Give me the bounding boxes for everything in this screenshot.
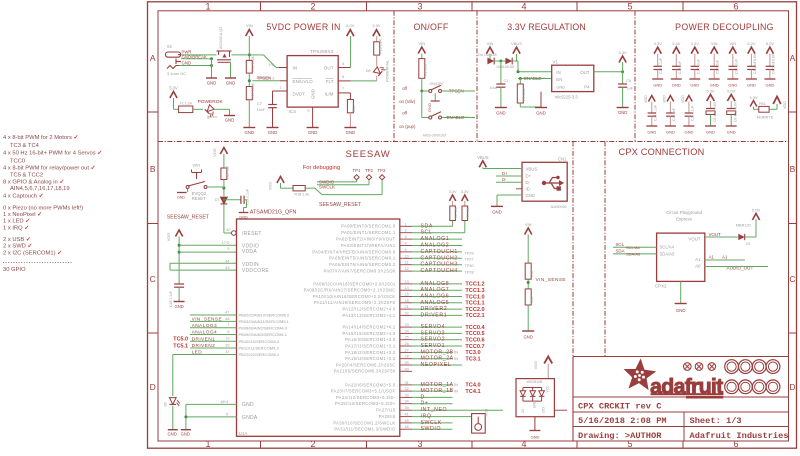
svg-text:C: C: [789, 274, 795, 284]
svg-text:TP3: TP3: [378, 168, 386, 173]
svg-text:PB11/I11/SERCOM4.3: PB11/I11/SERCOM4.3: [239, 346, 280, 351]
svg-text:MBR120: MBR120: [736, 224, 751, 228]
svg-text:Sheet: 1/3: Sheet: 1/3: [690, 416, 742, 426]
svg-text:CAPTOUCH1: CAPTOUCH1: [421, 249, 458, 255]
svg-text:GND: GND: [242, 402, 254, 408]
svg-text:R6 100K: R6 100K: [522, 87, 526, 101]
svg-text:R16 100K: R16 100K: [251, 82, 255, 99]
svg-text:MOTOR_1A: MOTOR_1A: [421, 382, 454, 388]
svg-text:VDDA: VDDA: [242, 249, 257, 255]
svg-text:TCC2.0: TCC2.0: [465, 307, 484, 313]
svg-text:POWERFAIL: POWERFAIL: [386, 60, 390, 82]
svg-text:43: 43: [225, 266, 229, 270]
svg-text:mic5225-3.3: mic5225-3.3: [555, 95, 579, 100]
svg-text:1 x IRQ ✓: 1 x IRQ ✓: [3, 225, 29, 231]
svg-text:SWDIO: SWDIO: [319, 179, 335, 184]
svg-text:RESET: RESET: [192, 196, 206, 201]
svg-text:CAPTOUCH2: CAPTOUCH2: [421, 255, 458, 261]
svg-text:3.3V: 3.3V: [372, 23, 381, 28]
svg-text:PA30/I10/SECOM1.2/SWCLK: PA30/I10/SECOM1.2/SWCLK: [333, 420, 395, 425]
svg-text:R10 100K: R10 100K: [251, 55, 255, 72]
svg-text:TC5.1: TC5.1: [173, 343, 188, 349]
svg-text:ANALOG4: ANALOG4: [192, 330, 217, 336]
svg-text:GND: GND: [533, 400, 537, 408]
svg-text:1: 1: [279, 86, 281, 90]
svg-text:GND: GND: [308, 130, 318, 135]
svg-text:D-: D-: [421, 394, 428, 400]
svg-text:40: 40: [226, 228, 230, 232]
svg-text:SEESAW: SEESAW: [345, 149, 390, 160]
svg-text:IN: IN: [454, 388, 458, 393]
svg-text:5.0V: 5.0V: [727, 89, 736, 94]
svg-text:INT_NEO: INT_NEO: [421, 407, 448, 413]
svg-text:MOTOR_1B: MOTOR_1B: [421, 388, 454, 394]
svg-text:PA18/I2/SERCOM1+3.2: PA18/I2/SERCOM1+3.2: [345, 350, 396, 355]
svg-text:TCC0.4: TCC0.4: [465, 325, 485, 331]
svg-text:21: 21: [405, 305, 409, 309]
svg-text:VIN: VIN: [711, 41, 718, 46]
svg-text:34: 34: [405, 400, 409, 404]
svg-text:on (pup): on (pup): [399, 124, 416, 129]
svg-text:SDA/A5: SDA/A5: [626, 251, 641, 256]
svg-text:3.3V: 3.3V: [691, 41, 700, 46]
svg-text:C18 0.1uF: C18 0.1uF: [169, 291, 173, 307]
svg-text:FERRITE: FERRITE: [757, 115, 774, 120]
svg-text:C12 1uF: C12 1uF: [672, 108, 676, 121]
svg-text:TP24: TP24: [485, 409, 489, 417]
svg-text:2: 2: [405, 229, 407, 233]
svg-text:6: 6: [733, 1, 738, 11]
svg-text:AO3401A Q2: AO3401A Q2: [219, 27, 223, 49]
svg-text:C21 10uF: C21 10uF: [734, 59, 738, 74]
svg-text:PA04/EINT4/VREFB/AIN4/SERCOM0.: PA04/EINT4/VREFB/AIN4/SERCOM0.0: [312, 249, 395, 254]
svg-text:IN: IN: [293, 66, 298, 71]
svg-text:9: 9: [307, 109, 309, 113]
svg-text:TCC0.6: TCC0.6: [465, 338, 484, 344]
svg-text:GND: GND: [653, 83, 662, 88]
svg-text:IN: IN: [454, 356, 458, 361]
svg-text:A: A: [150, 53, 156, 63]
svg-text:18*4: 18*4: [220, 400, 228, 404]
svg-text:30 GPIO: 30 GPIO: [3, 267, 26, 273]
svg-text:5: 5: [227, 247, 229, 251]
svg-text:A1: A1: [695, 257, 701, 262]
svg-text:32: 32: [405, 387, 409, 391]
svg-text:R18 1.2k: R18 1.2k: [295, 193, 310, 197]
svg-text:TCC1.1: TCC1.1: [465, 301, 484, 307]
svg-text:SDA/A5: SDA/A5: [660, 251, 676, 256]
svg-text:GND: GND: [728, 83, 737, 88]
svg-text:LED: LED: [192, 350, 203, 356]
svg-text:28: 28: [405, 355, 409, 359]
svg-text:C: C: [150, 274, 156, 284]
svg-text:SCL/A4: SCL/A4: [660, 245, 675, 250]
svg-text:MOTOR_2B: MOTOR_2B: [421, 349, 454, 355]
svg-text:10nF: 10nF: [257, 108, 266, 112]
svg-text:SCL: SCL: [421, 230, 433, 236]
svg-text:TP29: TP29: [465, 251, 474, 255]
svg-text:B: B: [150, 164, 156, 174]
svg-text:PA14/I14/SERCOM2+4.2: PA14/I14/SERCOM2+4.2: [342, 325, 395, 330]
svg-text:WS2812B: WS2812B: [527, 380, 543, 384]
svg-text:PA24/I12/SERCOM3+5.2/D-: PA24/I12/SERCOM3+5.2/D-: [336, 395, 396, 400]
svg-text:GND: GND: [182, 61, 192, 66]
svg-text:/RESET: /RESET: [242, 231, 262, 237]
svg-text:NEOPIXEL: NEOPIXEL: [421, 362, 452, 368]
svg-text:IN: IN: [454, 350, 458, 355]
svg-text:PA31/I11/SECOM1.3/SWDIO: PA31/I11/SECOM1.3/SWDIO: [334, 427, 395, 432]
svg-text:1N4148 D5: 1N4148 D5: [496, 65, 514, 69]
svg-text:CPX CONNECTION: CPX CONNECTION: [618, 147, 704, 157]
svg-text:OUT: OUT: [324, 66, 334, 71]
svg-text:14: 14: [405, 286, 409, 290]
svg-text:SW1: SW1: [192, 164, 200, 168]
svg-text:C7: C7: [257, 101, 263, 106]
svg-text:30: 30: [405, 367, 409, 371]
svg-text:R15 1.2K: R15 1.2K: [379, 38, 383, 54]
svg-text:SCL: SCL: [616, 242, 625, 247]
svg-text:ON/OFF: ON/OFF: [429, 82, 444, 86]
svg-text:D: D: [150, 382, 156, 392]
svg-text:SEESAW_RESET: SEESAW_RESET: [167, 215, 210, 221]
svg-text:C4 10uF/16V: C4 10uF/16V: [771, 53, 775, 74]
svg-text:VIN: VIN: [246, 23, 253, 28]
svg-text:GND: GND: [536, 111, 546, 116]
svg-text:F1 1.2A: F1 1.2A: [180, 102, 193, 106]
svg-text:GND: GND: [710, 83, 719, 88]
svg-text:10uF: 10uF: [489, 86, 498, 90]
svg-text:R1 10K: R1 10K: [424, 63, 428, 76]
svg-text:9: 9: [405, 248, 407, 252]
svg-text:TCC1.0: TCC1.0: [465, 294, 484, 300]
svg-text:PB02/I2/AIN10/SERCOM5.0: PB02/I2/AIN10/SERCOM5.0: [239, 313, 290, 318]
svg-text:27: 27: [405, 348, 409, 352]
svg-text:MOTOR_2A: MOTOR_2A: [421, 356, 454, 362]
svg-text:ANALOG8: ANALOG8: [421, 281, 450, 287]
svg-text:5.0V: 5.0V: [766, 41, 775, 46]
svg-text:GND: GND: [492, 210, 502, 215]
svg-text:3.3V: 3.3V: [654, 41, 663, 46]
svg-text:4 x 8-bit PWM for relay/power: 4 x 8-bit PWM for relay/power out ✓: [3, 165, 96, 171]
svg-text:Express: Express: [676, 217, 693, 222]
svg-text:3.3V: 3.3V: [618, 50, 627, 55]
svg-text:GND: GND: [346, 130, 356, 135]
svg-text:D-: D-: [502, 177, 507, 182]
svg-text:TC3.1: TC3.1: [465, 357, 480, 363]
svg-text:VDD: VDD: [533, 361, 538, 370]
svg-text:SWCLK: SWCLK: [421, 420, 442, 426]
svg-text:2: 2: [310, 439, 315, 449]
svg-text:SDA: SDA: [421, 223, 433, 229]
svg-text:PA12/I12/SERCOM2+4.0: PA12/I12/SERCOM2+4.0: [342, 307, 395, 312]
svg-text:C9 47uF/16V: C9 47uF/16V: [734, 101, 738, 122]
svg-text:GND: GND: [666, 130, 675, 135]
svg-text:VDD: VDD: [663, 95, 667, 103]
svg-text:GND: GND: [647, 130, 656, 135]
svg-text:ON/OFF: ON/OFF: [413, 22, 448, 32]
svg-text:1*2: 1*2: [268, 63, 274, 67]
svg-text:VDD: VDD: [644, 95, 648, 103]
svg-text:PA06/EINT6/AIN6/SERCOM0.2: PA06/EINT6/AIN6/SERCOM0.2: [329, 262, 396, 267]
svg-text:PB22/I22/SERCOM5.2: PB22/I22/SERCOM5.2: [239, 352, 280, 357]
svg-text:0 x Piezo (no more PWMs left!): 0 x Piezo (no more PWMs left!): [3, 205, 83, 211]
svg-text:20: 20: [225, 343, 229, 347]
svg-text:GND: GND: [672, 83, 681, 88]
svg-text:4 x Captouch ✓: 4 x Captouch ✓: [3, 193, 44, 199]
svg-text:green: green: [207, 115, 217, 119]
svg-text:3.1mm DC: 3.1mm DC: [167, 71, 186, 76]
svg-text:C10 0.1uF: C10 0.1uF: [659, 58, 663, 74]
svg-text:TC4.1: TC4.1: [465, 389, 480, 395]
svg-text:ANALOG7: ANALOG7: [421, 287, 450, 293]
svg-text:7: 7: [227, 323, 229, 327]
svg-text:off: off: [402, 86, 408, 91]
svg-text:22: 22: [405, 311, 409, 315]
svg-text:Adafruit Industries: Adafruit Industries: [690, 431, 789, 441]
svg-text:29: 29: [405, 361, 409, 365]
svg-text:TCC1.3: TCC1.3: [465, 288, 484, 294]
svg-text:12: 12: [405, 267, 409, 271]
svg-text:ANALOG6: ANALOG6: [421, 294, 450, 300]
svg-text:D9: D9: [164, 402, 168, 407]
svg-text:GND: GND: [765, 83, 774, 88]
svg-text:D4 1N4148: D4 1N4148: [478, 53, 496, 57]
svg-text:C6: C6: [626, 79, 631, 83]
svg-text:1: 1: [205, 439, 210, 449]
svg-text:PB10/I10/SERCOM4.2: PB10/I10/SERCOM4.2: [239, 339, 280, 344]
svg-text:PA16/I0/SERCOM1+3.0: PA16/I0/SERCOM1+3.0: [345, 337, 396, 342]
svg-text:V1: V1: [553, 60, 559, 65]
svg-text:24: 24: [405, 329, 409, 333]
svg-text:PA20/I4/SERCOM5.2/I2S5C: PA20/I4/SERCOM5.2/I2S5C: [336, 362, 396, 367]
svg-text:SWDIO: SWDIO: [421, 426, 442, 432]
svg-text:16: 16: [405, 299, 409, 303]
svg-text:PA09/I2C/RX/AIN17/SERCOM0+2.1/: PA09/I2C/RX/AIN17/SERCOM0+2.1/I2SMC: [304, 288, 396, 293]
svg-text:CN1: CN1: [558, 156, 567, 161]
svg-text:2: 2: [272, 76, 274, 80]
svg-text:VDD: VDD: [681, 95, 685, 103]
svg-text:4 x 50 Hz 16-bit+ PWM for 4 Se: 4 x 50 Hz 16-bit+ PWM for 4 Servos ✓: [3, 151, 102, 157]
svg-text:R17 1M: R17 1M: [225, 166, 229, 178]
svg-text:TC5.0: TC5.0: [173, 337, 188, 343]
svg-text:on (rdiv): on (rdiv): [399, 99, 416, 104]
svg-text:DRIVER1: DRIVER1: [421, 312, 448, 318]
svg-text:ANALOG2: ANALOG2: [421, 243, 450, 249]
svg-text:DRIVEN1: DRIVEN1: [192, 337, 216, 343]
svg-text:26: 26: [405, 342, 409, 346]
svg-text:46: 46: [405, 425, 409, 429]
svg-text:D+: D+: [502, 171, 508, 176]
svg-text:41: 41: [405, 413, 409, 417]
svg-text:D7: D7: [215, 198, 220, 202]
svg-text:P4: P4: [584, 85, 590, 90]
svg-text:MSS-3000103: MSS-3000103: [423, 134, 446, 138]
svg-text:AIN4,5,6,7,16,17,18,19: AIN4,5,6,7,16,17,18,19: [10, 186, 70, 192]
svg-text:VDDIN: VDDIN: [242, 262, 259, 268]
svg-text:1: 1: [405, 222, 407, 226]
svg-text:6: 6: [342, 75, 344, 79]
svg-text:DVDT: DVDT: [293, 91, 306, 96]
svg-text:TP28: TP28: [465, 271, 474, 275]
svg-text:8 x GPIO & Analog in ✓: 8 x GPIO & Analog in ✓: [3, 179, 64, 185]
svg-text:PA01/EINT1/SERCOM1.1: PA01/EINT1/SERCOM1.1: [341, 230, 396, 235]
svg-text:For debugging: For debugging: [303, 165, 340, 171]
svg-text:5.0V: 5.0V: [346, 23, 355, 28]
svg-text:R2 10K: R2 10K: [454, 206, 458, 218]
svg-text:SERVO2: SERVO2: [421, 337, 446, 343]
svg-text:CAPTOUCH4: CAPTOUCH4: [421, 268, 458, 274]
svg-text:15: 15: [405, 293, 409, 297]
svg-text:POWEROK: POWEROK: [198, 99, 224, 105]
svg-text:ID: ID: [526, 187, 530, 192]
svg-text:PA22/I6/SERCOM3+5.0: PA22/I6/SERCOM3+5.0: [345, 382, 396, 387]
svg-text:IRQ: IRQ: [421, 414, 432, 420]
svg-text:VBUS: VBUS: [511, 41, 522, 46]
svg-text:PA21/I5/SERCOM5.3/I2SF50: PA21/I5/SERCOM5.3/I2SF50: [334, 369, 396, 374]
svg-text:R14: R14: [352, 105, 356, 112]
svg-text:PA00/EINT0/SERCOM1.0: PA00/EINT0/SERCOM1.0: [341, 224, 396, 229]
svg-text:GND: GND: [181, 432, 190, 437]
svg-text:GND: GND: [311, 89, 316, 99]
svg-text:VIN: VIN: [525, 222, 532, 227]
svg-text:VOUT: VOUT: [709, 232, 722, 237]
svg-text:SERVO1: SERVO1: [421, 343, 446, 349]
svg-text:A1: A1: [709, 255, 715, 260]
svg-text:PA15/I15/SERCOM2+4.3: PA15/I15/SERCOM2+4.3: [342, 331, 395, 336]
svg-text:FLT: FLT: [326, 79, 334, 84]
svg-text:TC4.0: TC4.0: [465, 383, 480, 389]
svg-text:GND: GND: [496, 111, 506, 116]
svg-text:25: 25: [405, 336, 409, 340]
svg-text:45: 45: [405, 419, 409, 423]
svg-text:19: 19: [225, 337, 229, 341]
svg-text:31: 31: [405, 381, 409, 385]
svg-text:5.0V: 5.0V: [747, 41, 756, 46]
svg-text:PA17/I1/SERCOM1+3.1: PA17/I1/SERCOM1+3.1: [345, 343, 396, 348]
svg-text:GND: GND: [676, 308, 686, 313]
svg-text:PA05/EINT5/AIN5/SERCOM0.1: PA05/EINT5/AIN5/SERCOM0.1: [329, 256, 396, 261]
svg-text:ANALOG1: ANALOG1: [421, 236, 450, 242]
svg-text:44: 44: [225, 260, 229, 264]
svg-text:PB08/I8/AIN2/SERCOM4.0: PB08/I8/AIN2/SERCOM4.0: [239, 325, 288, 330]
svg-text:33: 33: [405, 393, 409, 397]
svg-text:GND: GND: [168, 432, 177, 437]
svg-text:GND: GND: [747, 83, 756, 88]
svg-text:Drawing: >AUTHOR: Drawing: >AUTHOR: [578, 431, 662, 441]
svg-text:47: 47: [225, 310, 229, 314]
svg-text:FB1: FB1: [759, 102, 766, 106]
svg-text:GND: GND: [207, 81, 217, 86]
svg-text:A: A: [790, 53, 796, 63]
svg-text:2 x USB ✓: 2 x USB ✓: [3, 237, 31, 243]
svg-text:TP27: TP27: [465, 258, 474, 262]
svg-text:GND: GND: [530, 435, 539, 440]
svg-text:5: 5: [627, 1, 632, 11]
svg-text:GND: GND: [226, 81, 236, 86]
svg-text:EN: EN: [556, 77, 562, 82]
svg-text:TC3.0: TC3.0: [465, 350, 480, 356]
svg-text:1: 1: [205, 1, 210, 11]
svg-text:C1: C1: [504, 79, 509, 83]
svg-text:2: 2: [310, 1, 315, 11]
svg-text:3.3V: 3.3V: [672, 41, 681, 46]
svg-text:GND: GND: [727, 130, 736, 135]
svg-text:R12: R12: [530, 271, 534, 277]
svg-text:4: 4: [405, 242, 407, 246]
svg-text:DI: DI: [521, 409, 525, 413]
svg-text:5VDC POWER IN: 5VDC POWER IN: [266, 22, 340, 32]
svg-text:X2: X2: [167, 44, 173, 49]
svg-text:5.0V: 5.0V: [169, 85, 178, 90]
svg-text:VIN: VIN: [487, 41, 494, 46]
svg-text:VIN_SENSE: VIN_SENSE: [192, 317, 223, 323]
svg-text:PA11/I11/AIN19/SERCOM0+2.3/I2S: PA11/I11/AIN19/SERCOM0+2.3/I2SFS: [314, 300, 396, 305]
svg-text:EN/UVLO: EN/UVLO: [293, 79, 314, 84]
svg-text:ILIM: ILIM: [325, 91, 334, 96]
svg-text:VIN: VIN: [418, 41, 425, 46]
svg-text:SWCLK: SWCLK: [319, 185, 335, 190]
svg-text:A0: A0: [695, 264, 701, 269]
svg-text:D-: D-: [526, 180, 531, 185]
svg-text:2 x SWD ✓: 2 x SWD ✓: [3, 244, 32, 250]
svg-text:D+: D+: [421, 401, 429, 407]
svg-text:23: 23: [405, 323, 409, 327]
svg-text:PA02/EINT2/AIN0/Y0/VOUT: PA02/EINT2/AIN0/Y0/VOUT: [336, 237, 396, 242]
svg-text:TPS259X3: TPS259X3: [310, 49, 334, 55]
svg-text:OUT: OUT: [580, 70, 590, 75]
svg-text:CPX CRCKIT rev C: CPX CRCKIT rev C: [578, 401, 661, 411]
svg-text:48: 48: [225, 317, 229, 321]
svg-text:TC3 & TC4: TC3 & TC4: [10, 143, 40, 149]
svg-text:TP1: TP1: [353, 168, 361, 173]
svg-text:B: B: [790, 164, 796, 174]
svg-text:C17 10uF: C17 10uF: [696, 59, 700, 74]
svg-text:GND: GND: [526, 193, 536, 198]
svg-text:39: 39: [405, 406, 409, 410]
svg-text:10: 10: [405, 254, 409, 258]
svg-text:GND: GND: [690, 83, 699, 88]
svg-text:PB09/I9/AIN3/SERCOM4.1: PB09/I9/AIN3/SERCOM4.1: [239, 332, 288, 337]
svg-text:TCC1.2: TCC1.2: [465, 282, 484, 288]
svg-text:GND: GND: [556, 85, 565, 90]
svg-text:5.0V: 5.0V: [752, 208, 761, 213]
svg-text:TP30: TP30: [465, 264, 474, 268]
svg-text:off: off: [402, 111, 408, 116]
svg-text:D8: D8: [366, 69, 371, 73]
svg-text:D1: D1: [746, 242, 751, 246]
svg-text:17*2: 17*2: [222, 241, 230, 245]
svg-text:4: 4: [521, 1, 526, 11]
svg-text:5.0V: 5.0V: [706, 89, 715, 94]
svg-text:IN: IN: [556, 70, 560, 75]
svg-text:C13 0.1uF: C13 0.1uF: [246, 189, 250, 205]
svg-text:3: 3: [417, 439, 422, 449]
svg-text:C11 0.1uF: C11 0.1uF: [690, 105, 694, 121]
svg-text:VCC: VCC: [546, 385, 550, 393]
svg-text:Circuit Playground: Circuit Playground: [666, 210, 702, 215]
svg-text:5: 5: [226, 412, 228, 416]
svg-text:PA23/I7/SERCOM3+5.1/USOF: PA23/I7/SERCOM3+5.1/USOF: [331, 389, 396, 394]
svg-text:TCC0.5: TCC0.5: [465, 331, 484, 337]
svg-text:R3 10K: R3 10K: [466, 206, 470, 218]
svg-text:37: 37: [225, 350, 229, 354]
svg-text:5: 5: [342, 62, 344, 66]
svg-text:GND: GND: [177, 196, 185, 200]
svg-text:VDDCORE: VDDCORE: [242, 268, 269, 274]
svg-text:JU#30039: JU#30039: [550, 205, 566, 209]
svg-text:SCL/A4: SCL/A4: [626, 245, 641, 250]
svg-text:VBUS: VBUS: [526, 167, 538, 172]
